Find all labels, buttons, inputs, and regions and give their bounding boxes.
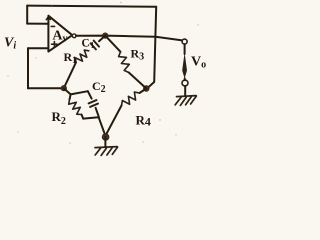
resistor R2 branch bbox=[70, 94, 71, 99]
wire left drop from rail to inverting input bbox=[26, 6, 28, 24]
node right (R3-R4 junction) bbox=[144, 86, 150, 92]
ground (bridge bottom) bbox=[95, 147, 118, 156]
capacitor C1 bbox=[91, 41, 99, 50]
op-amp plus sign bbox=[52, 42, 58, 48]
svg-text:R2: R2 bbox=[52, 109, 66, 127]
wire left vertical from Vi node down bbox=[27, 48, 29, 88]
wire to left bridge node bbox=[28, 87, 64, 89]
scan specks bbox=[7, 2, 198, 144]
svg-text:Vi: Vi bbox=[4, 36, 16, 52]
wire lower terminal stub bbox=[184, 78, 186, 80]
svg-text:R4: R4 bbox=[136, 113, 151, 129]
wire left node into R2/C2 parallel cell bbox=[64, 88, 71, 94]
resistor R3 zigzag branch bbox=[105, 36, 120, 52]
svg-text:Vo: Vo bbox=[191, 55, 206, 71]
wire top feedback rail bbox=[27, 6, 156, 7]
wire bottom side of parallel cell bbox=[83, 117, 98, 118]
wire R3 to right node bbox=[129, 73, 147, 89]
node bottom (grounded) bbox=[102, 134, 109, 141]
resistor R1 zigzag bbox=[76, 50, 89, 62]
capacitor C2 branch bbox=[88, 91, 92, 98]
op-amp minus sign bbox=[51, 25, 54, 27]
op-amp apex loop bbox=[72, 34, 76, 38]
Vo arrow bbox=[182, 53, 187, 79]
wire right vertical (inverting feedback) crossing output bbox=[147, 7, 156, 89]
svg-text:C2: C2 bbox=[92, 79, 106, 95]
node left (Z1-Z2 junction) bbox=[61, 86, 66, 91]
output terminal lower bbox=[182, 80, 188, 86]
ground (output) bbox=[175, 96, 196, 106]
wire top node to C1 bbox=[99, 36, 105, 42]
svg-text:R3: R3 bbox=[131, 47, 145, 63]
wire top side of parallel cell bbox=[71, 91, 88, 94]
op-amp Av input arrow mark bbox=[46, 17, 50, 24]
output terminal upper bbox=[182, 39, 187, 44]
resistor R4 branch from right node bbox=[140, 89, 147, 94]
wire bottom node to ground bbox=[104, 137, 106, 147]
wire below terminal bbox=[184, 44, 186, 54]
op-amp Av triangle bbox=[48, 16, 72, 52]
wire R1 to left node bbox=[64, 62, 76, 88]
wire op-amp output to top node and across to Vo bbox=[76, 36, 182, 41]
svg-text:C1: C1 bbox=[81, 37, 96, 51]
wire cell to bottom node bbox=[99, 117, 106, 136]
wire noninverting input bbox=[28, 47, 48, 49]
wire to op-amp inverting input bbox=[27, 23, 48, 25]
node top (output) bbox=[103, 33, 108, 38]
